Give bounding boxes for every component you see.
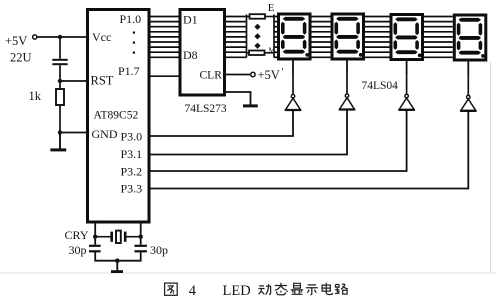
resistor pack RP1 [247, 2, 276, 58]
display DS4 box [454, 15, 486, 60]
display DS2 box [332, 14, 364, 59]
+5V terminal circle [33, 35, 37, 39]
caption 图 [165, 283, 178, 295]
left rail [246, 15, 248, 58]
svg-text:30p: 30p [150, 243, 168, 257]
display DS2 digit [335, 17, 363, 57]
svg-text:GND: GND [92, 127, 118, 141]
svg-text:74LS273: 74LS273 [185, 103, 227, 115]
wire P3.0 to inverter1 [151, 110, 294, 136]
svg-text:RST: RST [91, 74, 114, 88]
bus display2 to display3 [365, 17, 390, 58]
wire P3.1 to inverter2 [151, 110, 348, 155]
ground symbol crystal [116, 261, 118, 271]
wire 74LS273 to ground [225, 92, 251, 105]
faint page rule [0, 272, 496, 274]
latch U2 74LS273 box [180, 10, 225, 96]
display DS4 digit [457, 18, 485, 58]
svg-text:P1.7: P1.7 [118, 64, 140, 78]
svg-text:74LS04: 74LS04 [362, 80, 399, 92]
display DS3 box [391, 15, 423, 60]
ellipsis dots pack [254, 24, 260, 30]
terminal circle CLR +5V [251, 72, 255, 76]
svg-text:AT89C52: AT89C52 [94, 110, 139, 122]
svg-text:P3.2: P3.2 [121, 165, 143, 179]
ground symbol left [59, 133, 61, 149]
svg-text:30p: 30p [69, 243, 87, 257]
bottom resistor body [247, 52, 250, 54]
capacitor 22U plates [52, 59, 67, 61]
svg-text:D8: D8 [183, 48, 198, 62]
right rail [273, 15, 275, 58]
display DS1 box [279, 14, 311, 59]
ground symbol 74LS273 [243, 104, 258, 107]
svg-text:+5V: +5V [258, 68, 280, 82]
node XTAL2 [139, 235, 143, 239]
caption 电 [322, 283, 332, 295]
wire display3 to inverter3 [406, 60, 408, 76]
faint right scan line [490, 62, 492, 272]
svg-text:4: 4 [189, 283, 197, 299]
svg-text:+5V: +5V [5, 34, 27, 48]
svg-text:22U: 22U [10, 51, 32, 65]
crystal Y1 [95, 231, 141, 243]
node junction RST [58, 79, 62, 83]
svg-text:P1.0: P1.0 [120, 12, 142, 26]
MCU U1 AT89C52 box [88, 10, 150, 223]
wire XTAL1 [94, 222, 96, 245]
wire XTAL2 [140, 222, 142, 245]
svg-text:LED: LED [223, 283, 251, 299]
svg-text:1k: 1k [29, 89, 42, 103]
caption 显 [291, 283, 303, 294]
bus display3 to display4 [424, 17, 453, 58]
wire +5V to Vcc [37, 36, 87, 38]
svg-text:Vcc: Vcc [92, 30, 111, 44]
svg-text:': ' [282, 67, 284, 78]
svg-text:CRY: CRY [65, 228, 89, 242]
bus 74LS273 to resistor pack [226, 17, 247, 58]
capacitor C2 30p [135, 245, 147, 247]
capacitor C1 30p [89, 245, 101, 247]
wire to GND pin [60, 132, 87, 134]
caption 动 [258, 284, 271, 295]
wire resistor to GND node [59, 105, 61, 133]
ellipsis dots P1 [133, 32, 135, 34]
wire to RST pin [60, 80, 87, 82]
display DS3 digit [394, 17, 422, 57]
wire C1 down [95, 252, 141, 260]
wire P3.3 to inverter4 [151, 111, 469, 188]
svg-text:P3.1: P3.1 [121, 147, 143, 161]
wire capacitor to RST node [59, 65, 61, 89]
svg-text:P3.0: P3.0 [121, 130, 143, 144]
svg-text:D1: D1 [183, 13, 198, 27]
resistor 1k body [56, 89, 64, 105]
display DS1 digit [281, 17, 309, 57]
caption 路 [335, 284, 348, 294]
node junction GND [58, 130, 62, 134]
inverter U3B [339, 75, 355, 110]
inverter U3C [398, 75, 414, 110]
node junction at +5V rail [58, 35, 62, 39]
node ground crystal [115, 258, 120, 263]
wire display1 to inverter1 [292, 59, 294, 75]
caption 示 [306, 285, 318, 295]
svg-text:E: E [268, 2, 275, 14]
caption 态 [275, 283, 288, 295]
inverter U3D [460, 76, 476, 111]
wire CLR to +5V [226, 74, 251, 76]
wire display4 to inverter4 [467, 60, 469, 76]
inverter U3A [285, 75, 301, 110]
wire display2 to inverter2 [346, 59, 348, 75]
bus P1.0-P1.7 MCU to 74LS273 [151, 17, 180, 58]
svg-text:P3.3: P3.3 [121, 182, 143, 196]
bus pack to display 1 [274, 17, 278, 58]
node XTAL1 [93, 235, 97, 239]
bus display1 to display2 [312, 17, 331, 58]
top resistor body [247, 16, 250, 18]
wire P3.2 to inverter3 [151, 110, 407, 171]
wire P1.7 clock to 74LS273 [151, 75, 180, 77]
wire down to capacitor [59, 37, 61, 59]
svg-text:CLR: CLR [200, 70, 223, 82]
